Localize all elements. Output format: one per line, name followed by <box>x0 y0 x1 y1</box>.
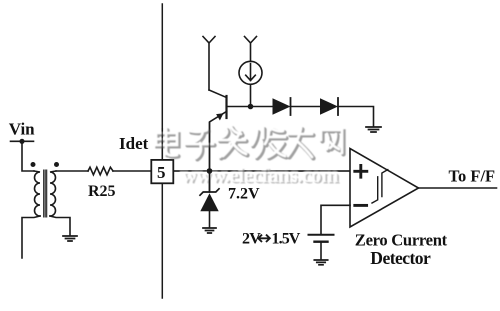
wire IC boundary line upper <box>161 4 163 160</box>
svg-text:R25: R25 <box>88 183 116 200</box>
ground transformer secondary <box>63 236 77 241</box>
transistor Q1 collector diagonal <box>209 90 227 98</box>
diode D2 <box>320 98 338 114</box>
wire secondary top to R25 <box>56 170 88 172</box>
transformer T1 secondary polarity dot <box>54 162 59 167</box>
transistor Q1 base bar <box>225 96 227 118</box>
node Vin input stub <box>11 140 34 142</box>
comparator plus sign <box>355 165 367 177</box>
wire battery to ground <box>320 242 322 260</box>
node Vin junction dot <box>19 139 24 144</box>
wire R25 to pin 5 <box>113 170 151 172</box>
ground battery <box>314 260 327 265</box>
svg-text:5: 5 <box>157 163 166 182</box>
transformer T1 primary polarity dot <box>31 162 36 167</box>
comparator U1 body <box>350 149 419 228</box>
svg-text:To F/F: To F/F <box>449 166 496 185</box>
pin 5 box <box>151 160 173 183</box>
svg-text:Idet: Idet <box>119 134 149 153</box>
power VCC symbol left <box>203 37 215 91</box>
transformer T1 primary winding <box>34 171 40 216</box>
wire IC boundary segment redrawn over watermark <box>161 128 163 160</box>
comparator hysteresis symbol <box>372 170 388 203</box>
wire secondary bottom to ground <box>50 216 70 236</box>
svg-text:1.5V: 1.5V <box>272 231 301 248</box>
wire node to diode D1 <box>251 106 273 108</box>
ground diode chain <box>366 127 381 132</box>
current source I1 arrow <box>246 64 256 81</box>
wire D2 to ground <box>338 107 374 127</box>
zener diode Z1 body <box>200 193 218 211</box>
node emitter/zener junction dot <box>207 168 213 174</box>
comparator minus sign <box>355 204 367 207</box>
wire pin5-to-comparator segment redrawn over watermark <box>173 170 350 172</box>
wire minus input to battery <box>321 205 350 234</box>
wire emitter vertical segment redrawn over watermark <box>209 122 211 171</box>
transistor Q1 emitter diagonal with PNP arrow <box>210 112 227 172</box>
wire comparator output <box>419 187 497 189</box>
power VCC symbol right <box>245 37 257 62</box>
zener diode Z1 cathode bar <box>200 189 219 195</box>
node base/diode junction dot <box>248 104 254 110</box>
svg-text:www.elecfans.com: www.elecfans.com <box>182 163 340 187</box>
resistor R25 <box>88 167 113 175</box>
diode D1 <box>273 98 291 114</box>
wire Vin down to primary top <box>22 141 34 171</box>
ground zener <box>203 228 216 233</box>
transformer T1 secondary winding <box>50 171 56 216</box>
svg-text:Zero Current: Zero Current <box>355 230 448 249</box>
svg-text:Vin: Vin <box>9 120 35 139</box>
wire IC boundary line lower <box>161 183 163 298</box>
transformer T1 core <box>44 170 47 217</box>
wire D1 to D2 <box>291 106 321 108</box>
wire pin5 to comparator plus input <box>173 170 350 172</box>
battery B1 threshold source <box>309 234 334 236</box>
node emitter/zener junction dot over watermark <box>207 168 213 174</box>
wire primary bottom open lead <box>22 216 40 258</box>
current source I1 circle <box>239 61 262 84</box>
wire zener to ground <box>209 171 211 228</box>
wire current source to base node <box>250 84 252 106</box>
watermark www.elecfans.com <box>182 163 341 189</box>
svg-text:Detector: Detector <box>370 248 431 268</box>
transistor Q1 base wire to node <box>227 106 251 108</box>
